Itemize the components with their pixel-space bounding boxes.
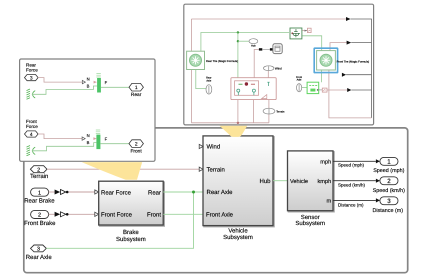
svg-text:Terrain: Terrain	[207, 166, 225, 173]
svg-text:Front Axle: Front Axle	[206, 211, 234, 218]
svg-text:Wind: Wind	[207, 144, 221, 151]
svg-text:Force: Force	[26, 124, 38, 129]
svg-text:Hub: Hub	[251, 44, 256, 47]
svg-text:B: B	[87, 140, 90, 145]
svg-text:2: 2	[135, 141, 138, 147]
svg-text:Force: Force	[26, 67, 38, 72]
svg-text:m: m	[327, 199, 332, 205]
svg-text:1: 1	[135, 85, 138, 91]
svg-text:1: 1	[38, 190, 41, 196]
svg-text:Hub: Hub	[259, 178, 271, 185]
svg-text:Rear: Rear	[148, 189, 161, 196]
svg-text:Rear Axle: Rear Axle	[207, 189, 234, 196]
svg-text:4: 4	[30, 132, 33, 138]
svg-text:F: F	[105, 80, 108, 85]
svg-text:Subsystem: Subsystem	[295, 220, 325, 227]
svg-text:3: 3	[30, 75, 33, 81]
svg-text:Speed (mph): Speed (mph)	[338, 163, 365, 168]
svg-text:2: 2	[38, 213, 41, 219]
svg-text:Vehicle: Vehicle	[228, 227, 248, 234]
svg-text:Terrain: Terrain	[30, 173, 48, 180]
svg-text:Axle: Axle	[206, 79, 211, 82]
svg-text:Distance (m): Distance (m)	[338, 203, 364, 208]
svg-text:Axle: Axle	[297, 79, 302, 82]
svg-text:Speed (km/h): Speed (km/h)	[373, 188, 406, 194]
svg-text:Front: Front	[130, 148, 142, 154]
svg-text:Front Tire (Magic Formula): Front Tire (Magic Formula)	[337, 60, 370, 63]
svg-text:Rear Axle: Rear Axle	[26, 254, 53, 261]
svg-text:N: N	[87, 133, 90, 138]
svg-text:Front Force: Front Force	[101, 212, 133, 219]
svg-text:Brake: Brake	[123, 229, 139, 236]
svg-text:N: N	[87, 77, 90, 82]
svg-text:Terrain: Terrain	[276, 110, 285, 113]
svg-text:Sensor: Sensor	[301, 214, 320, 221]
svg-text:mph: mph	[320, 159, 331, 166]
svg-text:Speed (mph): Speed (mph)	[373, 168, 404, 174]
svg-text:Wind: Wind	[275, 66, 282, 70]
svg-text:Rear Brake: Rear Brake	[24, 198, 55, 205]
svg-text:Rear Force: Rear Force	[101, 189, 132, 196]
svg-text:Speed (km/h): Speed (km/h)	[338, 183, 366, 188]
svg-text:kmph: kmph	[318, 178, 332, 185]
svg-text:F: F	[105, 137, 108, 142]
svg-text:Rear Tire (Magic Formula): Rear Tire (Magic Formula)	[206, 60, 238, 63]
svg-text:Front: Front	[147, 212, 161, 219]
svg-text:Rear: Rear	[131, 92, 142, 98]
svg-text:Subsystem: Subsystem	[223, 234, 253, 241]
svg-text:2: 2	[37, 167, 40, 173]
svg-text:1: 1	[387, 159, 391, 166]
svg-text:Front Brake: Front Brake	[24, 220, 56, 227]
svg-text:Vehicle: Vehicle	[290, 178, 308, 185]
svg-text:3: 3	[37, 246, 40, 252]
svg-text:Distance (m): Distance (m)	[373, 208, 404, 214]
svg-text:3: 3	[387, 198, 391, 205]
svg-text:2: 2	[387, 178, 391, 185]
svg-text:Subsystem: Subsystem	[116, 236, 146, 243]
svg-text:B: B	[87, 83, 90, 88]
